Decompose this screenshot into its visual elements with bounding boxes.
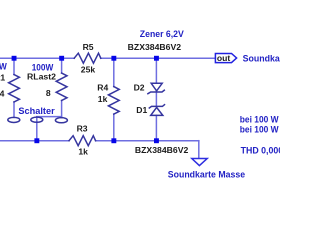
svg-text:25k: 25k	[81, 65, 96, 75]
svg-text:Schalter: Schalter	[18, 106, 55, 116]
svg-text:R4: R4	[97, 82, 108, 92]
svg-text:RLast2: RLast2	[27, 72, 56, 82]
svg-text:4: 4	[0, 88, 5, 98]
svg-text:1k: 1k	[98, 94, 108, 104]
svg-text:Zener 6,2V: Zener 6,2V	[140, 29, 184, 39]
svg-text:bei 100 W: bei 100 W	[240, 115, 279, 125]
svg-text:1k: 1k	[78, 147, 88, 157]
svg-text:100W: 100W	[32, 62, 54, 72]
svg-text:out: out	[217, 53, 230, 63]
svg-text:RLast1: RLast1	[0, 72, 5, 82]
svg-text:bei 100 W: bei 100 W	[240, 124, 279, 134]
svg-text:BZX384B6V2: BZX384B6V2	[128, 42, 182, 52]
svg-text:THD 0,0003%: THD 0,0003%	[241, 146, 280, 156]
svg-text:R3: R3	[77, 124, 88, 134]
svg-text:Soundkarte: Soundkarte	[243, 54, 280, 64]
svg-text:D1: D1	[136, 105, 147, 115]
svg-text:100W: 100W	[0, 62, 7, 72]
svg-text:8: 8	[46, 88, 51, 98]
svg-text:D2: D2	[134, 83, 145, 93]
svg-text:Soundkarte Masse: Soundkarte Masse	[168, 169, 245, 179]
svg-text:R5: R5	[83, 42, 94, 52]
svg-text:BZX384B6V2: BZX384B6V2	[135, 145, 189, 155]
